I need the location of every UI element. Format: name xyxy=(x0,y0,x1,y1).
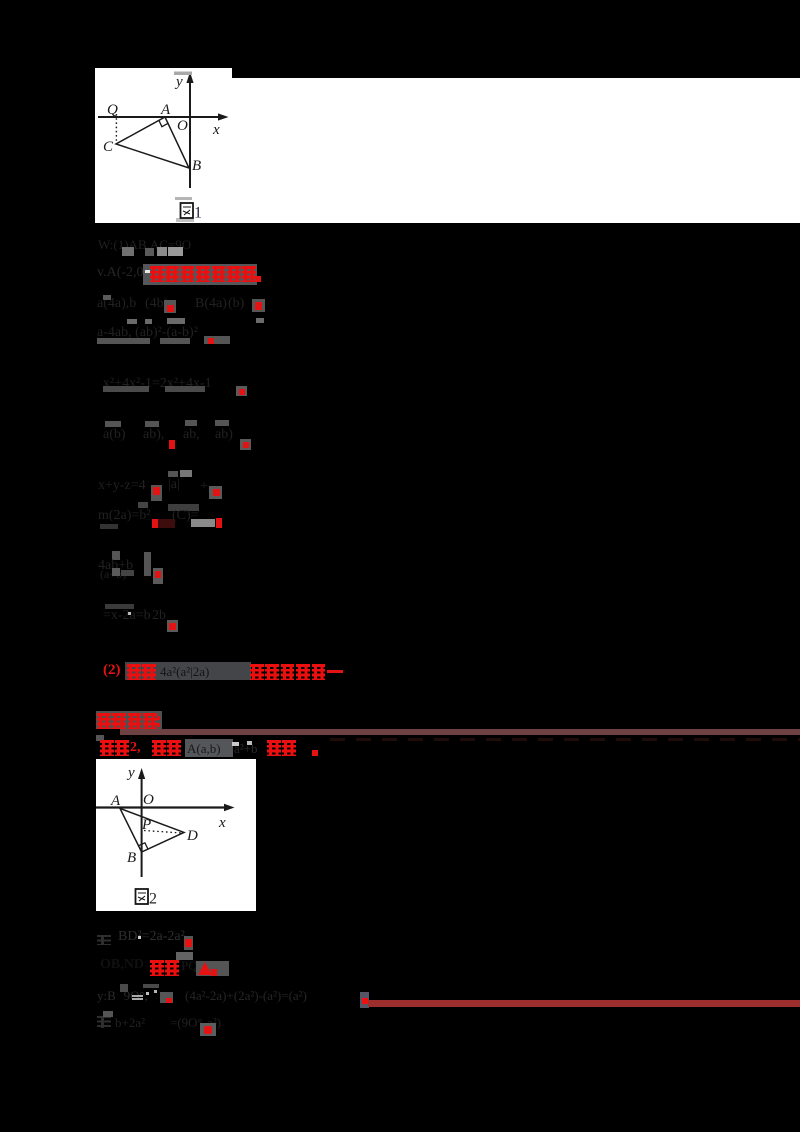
svg-text:2: 2 xyxy=(149,891,157,908)
svg-text:P: P xyxy=(141,817,151,833)
图2 label xyxy=(136,889,158,908)
svg-text:C: C xyxy=(103,139,114,155)
faint dark red dash row xyxy=(330,738,800,742)
line 6 xyxy=(103,376,212,392)
figure 1 white box xyxy=(95,68,232,223)
svg-text:A: A xyxy=(110,793,121,809)
x-axis xyxy=(96,806,228,808)
dotted PD xyxy=(144,831,182,834)
line 1: 解:(1) header xyxy=(98,237,191,253)
line 8 xyxy=(98,478,146,494)
maroon band 2 xyxy=(368,1000,800,1007)
line 7 xyxy=(105,421,121,427)
svg-text:B: B xyxy=(127,850,136,866)
svg-text:1: 1 xyxy=(194,205,202,222)
line 4 xyxy=(127,319,137,324)
red triangle xyxy=(198,962,212,975)
svg-text:y: y xyxy=(126,765,135,781)
line 15 xyxy=(97,935,111,945)
x-axis xyxy=(98,116,223,118)
svg-text:O: O xyxy=(177,118,188,134)
line 11 xyxy=(105,604,134,609)
line 2: dark prefix + red phrase on gray xyxy=(97,265,158,281)
图1 label xyxy=(181,203,203,222)
figure 2 white box xyxy=(96,759,256,911)
right angle at A xyxy=(159,120,168,126)
svg-text:y: y xyxy=(174,74,183,90)
svg-text:A: A xyxy=(160,102,171,118)
figure 2 drawing xyxy=(96,759,256,912)
right angle at B xyxy=(139,843,149,849)
svg-text:x: x xyxy=(212,122,220,138)
line 16 xyxy=(100,957,144,973)
y-axis xyxy=(189,77,191,188)
y-axis xyxy=(141,773,143,877)
maroon band 1 xyxy=(120,729,800,736)
svg-text:x: x xyxy=(218,815,226,831)
triangle ABD xyxy=(120,808,184,852)
line 18 xyxy=(97,1016,111,1028)
line 9 xyxy=(98,508,151,524)
svg-text:Q: Q xyxy=(107,102,118,118)
svg-text:O: O xyxy=(143,792,154,808)
white strip right of figure 1 xyxy=(232,78,800,223)
line 10: tall fraction xyxy=(112,551,120,560)
gray dash above y xyxy=(174,72,192,76)
line 14: 如图2 red sentence xyxy=(100,740,114,756)
triangle ACB xyxy=(116,117,189,168)
svg-text:D: D xyxy=(186,828,198,844)
figure 1 drawing xyxy=(95,68,232,223)
dotted QC xyxy=(115,114,117,142)
svg-text:B: B xyxy=(192,158,201,174)
line 13: 理由如下: + maroon band xyxy=(96,711,162,729)
line 12: (2) red sentence xyxy=(125,662,251,680)
line 17 + maroon band 2 xyxy=(97,988,148,1004)
line 3 xyxy=(97,296,136,312)
